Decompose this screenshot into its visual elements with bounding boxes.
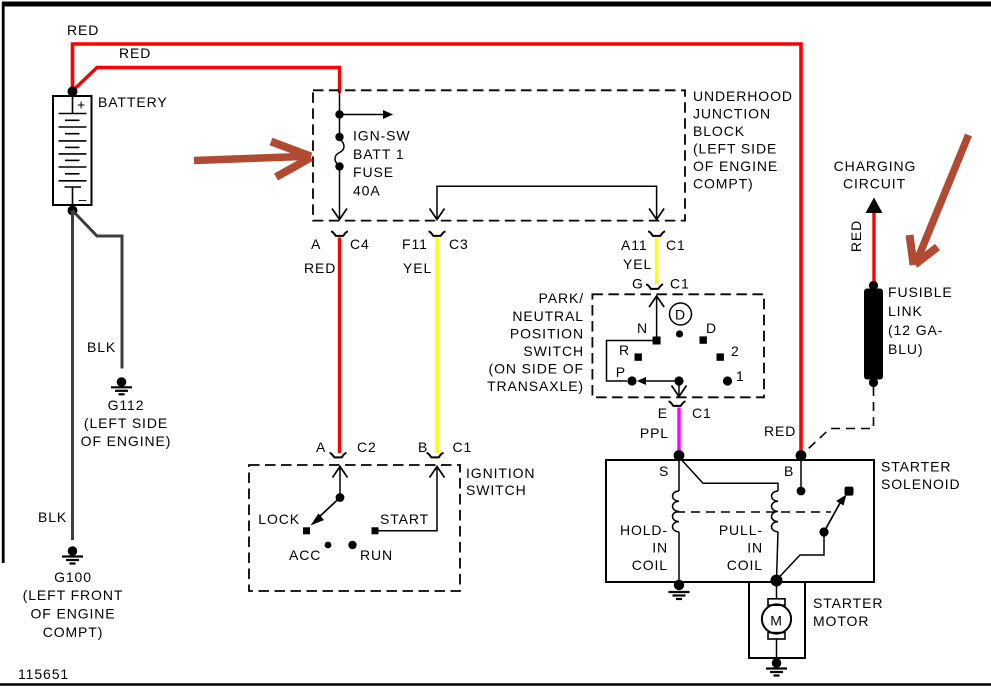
node ignition pivot	[336, 493, 345, 502]
svg-text:A11: A11	[621, 237, 648, 253]
PNP wiper path N to P	[607, 341, 657, 382]
svg-text:TRANSAXLE): TRANSAXLE)	[487, 378, 584, 394]
hold-in coil	[672, 460, 679, 583]
svg-text:R: R	[619, 342, 630, 358]
pull-in coil	[771, 491, 778, 580]
svg-text:G112: G112	[108, 397, 145, 413]
wire fuse feed inside junction block	[339, 92, 341, 115]
svg-text:M: M	[770, 613, 783, 629]
svg-text:FUSIBLE: FUSIBLE	[888, 284, 953, 300]
wire YEL F11 to ignition switch B	[435, 238, 438, 454]
ACC contact	[325, 542, 332, 549]
node hold-in coil ground junction	[674, 580, 684, 590]
svg-text:POSITION: POSITION	[510, 326, 584, 342]
wire RED battery positive to junction block fuse	[74, 68, 340, 94]
PNP entry arrow from G	[649, 296, 664, 307]
svg-text:PPL: PPL	[640, 425, 669, 441]
wire dashed fusible link to solenoid B	[802, 387, 874, 455]
svg-text:P: P	[616, 364, 626, 380]
svg-text:B: B	[418, 439, 428, 455]
START contact	[372, 527, 379, 534]
svg-text:ACC: ACC	[289, 547, 321, 563]
svg-text:BLK: BLK	[87, 339, 116, 355]
svg-text:115651: 115651	[18, 666, 69, 682]
solenoid switch arm	[777, 495, 847, 581]
svg-text:RUN: RUN	[360, 547, 393, 563]
svg-text:FUSE: FUSE	[353, 164, 394, 180]
svg-text:IN: IN	[652, 540, 668, 556]
wire RED battery positive to solenoid B terminal	[73, 44, 802, 453]
svg-text:A: A	[316, 439, 326, 455]
ground G100	[62, 546, 83, 563]
svg-text:STARTER: STARTER	[813, 595, 883, 611]
PNP wiper arrow	[637, 377, 646, 385]
branch arrow to other circuits	[340, 114, 386, 116]
solenoid plunger dashed link	[676, 511, 831, 513]
svg-text:D: D	[706, 320, 717, 336]
wire START to terminal B	[379, 468, 438, 531]
connector terminal E C1	[669, 401, 686, 406]
PNP contact dots	[676, 330, 683, 337]
connector terminal B C1	[427, 453, 444, 458]
fusible link	[864, 281, 883, 387]
PNP gear indicator circled D	[670, 303, 692, 325]
connector terminal G C1	[646, 284, 663, 289]
wire RED charging circuit to fusible link	[872, 213, 875, 283]
svg-text:HOLD-: HOLD-	[620, 522, 668, 538]
svg-text:RED: RED	[67, 22, 99, 38]
svg-text:PULL-: PULL-	[719, 522, 763, 538]
solenoid B contact	[800, 456, 802, 488]
svg-text:RED: RED	[848, 220, 864, 252]
starter solenoid box	[606, 460, 874, 582]
battery	[53, 96, 92, 207]
starter motor	[749, 582, 805, 658]
svg-text:CIRCUIT: CIRCUIT	[843, 176, 906, 192]
wire BLK battery negative to G112	[73, 211, 123, 369]
node battery positive	[68, 87, 78, 97]
ground G112	[111, 377, 132, 394]
node solenoid B terminal	[796, 450, 807, 461]
svg-text:B: B	[784, 463, 794, 479]
svg-text:C1: C1	[666, 237, 686, 253]
svg-text:LOCK: LOCK	[258, 511, 300, 527]
svg-text:OF ENGINE): OF ENGINE)	[81, 433, 172, 449]
svg-text:C1: C1	[692, 405, 712, 421]
svg-text:COMPT): COMPT)	[693, 176, 754, 192]
svg-text:IGNITION: IGNITION	[466, 465, 535, 481]
junction block internal wire C3 to C1	[437, 186, 657, 218]
svg-text:BATTERY: BATTERY	[98, 94, 168, 110]
svg-text:C3: C3	[449, 236, 469, 252]
svg-text:IGN-SW: IGN-SW	[353, 128, 411, 144]
svg-text:(LEFT FRONT: (LEFT FRONT	[23, 587, 124, 603]
svg-text:BLK: BLK	[38, 509, 67, 525]
svg-text:BLOCK: BLOCK	[693, 123, 745, 139]
solenoid fixed contact	[845, 487, 854, 496]
svg-text:START: START	[380, 511, 429, 527]
svg-text:A: A	[311, 236, 321, 252]
svg-text:IN: IN	[747, 540, 763, 556]
ignition switch arm to LOCK	[318, 498, 340, 519]
svg-text:BATT 1: BATT 1	[353, 146, 405, 162]
svg-text:SOLENOID: SOLENOID	[881, 476, 961, 492]
svg-text:OF ENGINE: OF ENGINE	[693, 158, 778, 174]
PNP exit arrow to E	[678, 381, 680, 395]
svg-text:UNDERHOOD: UNDERHOOD	[693, 88, 793, 104]
svg-text:G100: G100	[54, 569, 92, 585]
svg-text:C1: C1	[453, 439, 473, 455]
connector terminal F11 C3	[429, 231, 446, 236]
node fuse top junction	[335, 110, 343, 118]
svg-text:C4: C4	[350, 236, 370, 252]
ground solenoid	[669, 592, 690, 599]
svg-text:RED: RED	[304, 260, 336, 276]
node PNP output junction	[674, 376, 683, 385]
node PNP P contact	[627, 376, 636, 385]
red pointer arrow at fusible link	[910, 135, 969, 265]
svg-text:40A: 40A	[353, 182, 381, 198]
svg-text:SWITCH: SWITCH	[466, 482, 527, 498]
wire BLK battery negative to G100	[71, 211, 74, 541]
wire PPL E to solenoid S	[677, 408, 680, 454]
node solenoid S terminal	[674, 450, 685, 461]
svg-text:BLU): BLU)	[888, 341, 924, 357]
svg-text:–: –	[79, 191, 88, 207]
connector terminal A C2	[330, 453, 347, 458]
svg-text:N: N	[637, 320, 648, 336]
underhood junction block box	[313, 90, 685, 220]
node battery negative	[68, 206, 78, 216]
svg-text:(LEFT SIDE: (LEFT SIDE	[84, 415, 168, 431]
ignition switch box	[249, 465, 460, 591]
svg-text:C1: C1	[670, 276, 690, 292]
node solenoid output junction	[771, 575, 783, 587]
svg-text:LINK: LINK	[888, 303, 923, 319]
svg-text:SWITCH: SWITCH	[523, 343, 584, 359]
svg-text:PARK/: PARK/	[539, 290, 584, 306]
svg-text:+: +	[77, 97, 86, 113]
svg-text:COMPT): COMPT)	[43, 624, 104, 640]
svg-text:C2: C2	[357, 439, 377, 455]
svg-text:MOTOR: MOTOR	[813, 613, 869, 629]
wire RED C4 to ignition switch A	[338, 238, 341, 454]
LOCK contact	[303, 527, 310, 534]
red pointer arrow at fuse	[194, 142, 311, 178]
node PNP N contact	[653, 337, 661, 345]
svg-text:(12 GA-: (12 GA-	[888, 322, 943, 338]
svg-text:STARTER: STARTER	[881, 459, 951, 475]
svg-text:1: 1	[736, 368, 745, 384]
svg-text:G: G	[632, 276, 644, 292]
charging circuit arrow	[866, 198, 883, 214]
fuse IGN-SW BATT 1 FUSE 40A	[335, 115, 344, 171]
svg-text:(LEFT SIDE: (LEFT SIDE	[693, 141, 777, 157]
svg-text:NEUTRAL: NEUTRAL	[512, 308, 584, 324]
ignition entry arrow A	[333, 467, 348, 478]
RUN contact	[348, 541, 356, 549]
park/neutral position switch box	[592, 294, 764, 397]
svg-text:S: S	[659, 463, 669, 479]
connector terminal A11 C1	[648, 231, 665, 236]
svg-text:F11: F11	[402, 236, 428, 252]
svg-text:CHARGING: CHARGING	[834, 158, 917, 174]
svg-text:E: E	[658, 405, 668, 421]
svg-text:(ON SIDE OF: (ON SIDE OF	[489, 361, 584, 377]
svg-text:JUNCTION: JUNCTION	[693, 106, 771, 122]
svg-text:RED: RED	[119, 45, 151, 61]
svg-text:YEL: YEL	[403, 260, 432, 276]
svg-text:COIL: COIL	[632, 557, 668, 573]
svg-text:2: 2	[731, 343, 740, 359]
connector terminal A C4	[331, 231, 348, 236]
svg-text:OF ENGINE: OF ENGINE	[30, 606, 115, 622]
svg-text:YEL: YEL	[623, 256, 652, 272]
wire YEL A11 to PNP switch G	[655, 238, 658, 285]
svg-text:RED: RED	[764, 423, 796, 439]
svg-text:D: D	[675, 307, 686, 323]
svg-text:COIL: COIL	[727, 557, 763, 573]
pull-in coil feed from S	[679, 457, 778, 491]
ground starter motor	[766, 658, 787, 675]
wire fuse to terminal A C4	[339, 167, 341, 219]
